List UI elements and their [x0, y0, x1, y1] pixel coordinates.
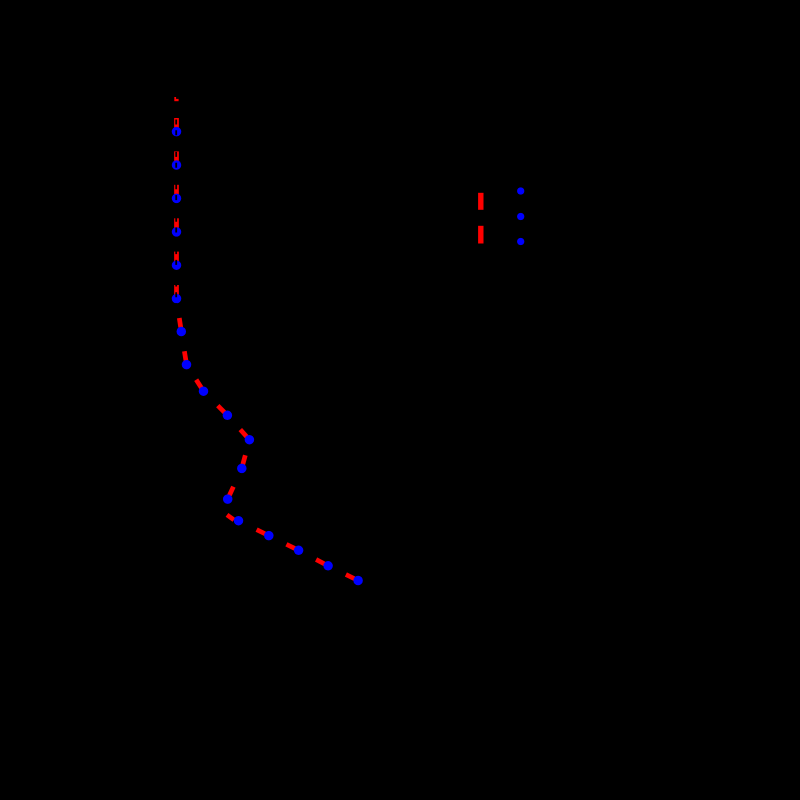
legend blue point 2: [517, 213, 524, 220]
wire red dash seg12: [243, 455, 246, 464]
node P13 blue point: [223, 494, 233, 504]
node P5 blue point: [172, 260, 182, 270]
wire red dash seg11: [240, 430, 246, 437]
wire red dash seg6: [174, 285, 179, 295]
legend red dashed line sample (vertical), dash 1: [478, 193, 483, 210]
node P16 blue point: [294, 546, 304, 556]
node P1 blue point: [172, 127, 182, 137]
wire red dash seg2: [174, 151, 179, 161]
wire red dash seg18: [346, 575, 355, 579]
wire red dash seg1: [174, 118, 179, 128]
node P7 blue point: [177, 327, 187, 337]
black notch over top fragment: [176, 97, 179, 99]
wire red dash seg17: [316, 560, 324, 564]
node P17 blue point: [323, 561, 333, 571]
node P15 blue point: [264, 531, 274, 541]
legend blue point 3: [517, 238, 524, 245]
wire red dash seg4: [174, 218, 179, 228]
node P12 blue point: [237, 464, 247, 474]
wire red dash seg7: [179, 318, 180, 327]
wire red dash seg14: [227, 515, 234, 520]
black dashed vertical reference line overlay (visible as slits through colored marks): [175, 120, 177, 313]
wire red dash seg16: [286, 544, 295, 548]
node P18 blue point: [353, 576, 363, 586]
node P9 blue point: [199, 386, 209, 396]
top red fragment at first data point: [174, 97, 178, 101]
node P14 blue point: [234, 516, 244, 526]
wire red dash seg5: [174, 252, 179, 262]
node P3 blue point: [172, 194, 182, 204]
node P10 blue point: [223, 411, 233, 421]
node P11 blue point: [245, 435, 255, 445]
wire red dash seg8: [184, 351, 186, 360]
wire red dash seg15: [257, 530, 266, 534]
node P6 blue point: [172, 294, 182, 304]
wire red dash seg13: [229, 487, 233, 496]
wire red dash seg9: [196, 380, 201, 388]
node P8 blue point: [182, 360, 192, 370]
wire red dash seg3: [174, 185, 179, 195]
wire red dash seg10: [218, 406, 225, 413]
legend red dashed line sample, dash 2: [478, 226, 483, 244]
node P4 blue point: [172, 227, 182, 237]
node P2 blue point: [172, 160, 182, 170]
legend blue point 1: [517, 187, 524, 194]
